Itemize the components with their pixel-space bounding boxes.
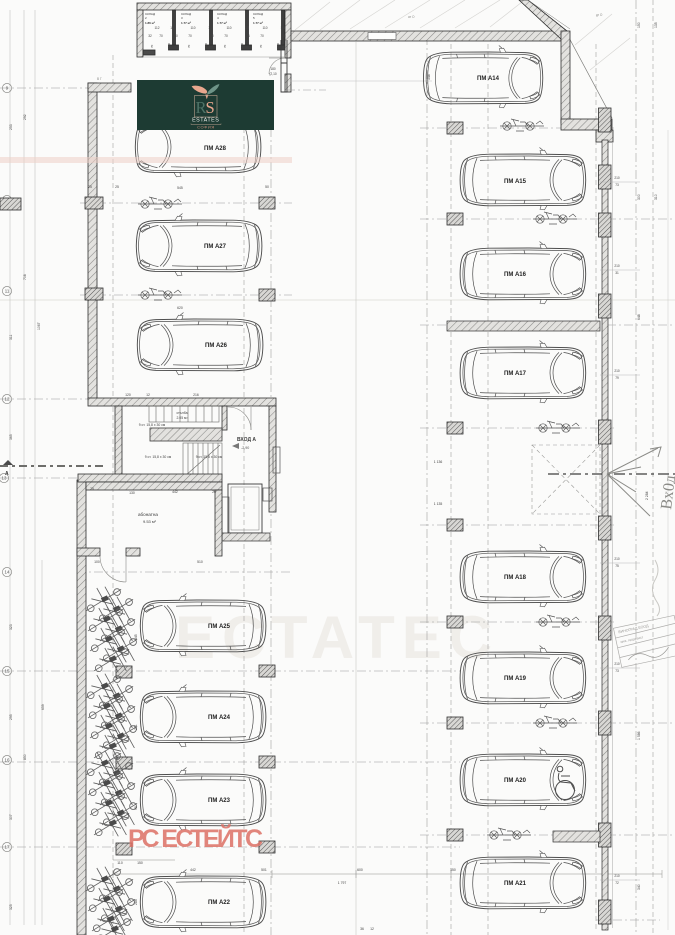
stair flight upper steps <box>149 406 219 422</box>
bottom dimension line 1797 <box>113 860 662 878</box>
svg-text:ПМ А17: ПМ А17 <box>504 371 527 377</box>
svg-text:271: 271 <box>134 724 138 730</box>
svg-text:S: S <box>206 98 215 117</box>
svg-text:36: 36 <box>246 34 250 38</box>
parking pilaster blocks right column <box>447 122 463 841</box>
right wall inner face line <box>612 142 614 928</box>
svg-text:73: 73 <box>615 183 619 187</box>
svg-text:300: 300 <box>637 194 641 200</box>
stair bottom wall <box>78 474 222 482</box>
svg-text:32: 32 <box>148 34 152 38</box>
logo bird right wing <box>207 84 219 94</box>
compartment front line <box>143 56 285 58</box>
svg-text:1 136: 1 136 <box>434 460 443 464</box>
svg-text:дг О: дг О <box>596 13 603 17</box>
svg-text:100: 100 <box>94 560 100 564</box>
car PM A23 <box>140 768 266 830</box>
small shaft box <box>263 488 272 501</box>
svg-text:26: 26 <box>212 490 216 494</box>
car PM A27 <box>136 214 262 276</box>
svg-text:850: 850 <box>23 754 27 760</box>
svg-text:12: 12 <box>146 393 150 397</box>
svg-text:545: 545 <box>177 186 183 190</box>
svg-text:150: 150 <box>637 22 641 28</box>
right wall pilaster blocks <box>599 108 612 924</box>
svg-text:70: 70 <box>259 44 263 48</box>
motorcycle top-right <box>500 119 544 131</box>
horizontal reference rows (left column) <box>0 88 460 847</box>
svg-text:В Г: В Г <box>97 77 102 81</box>
storage room labels <box>145 12 263 25</box>
svg-text:15: 15 <box>5 669 10 674</box>
svg-text:12: 12 <box>170 26 174 30</box>
storage right wall with door <box>285 10 291 58</box>
Vhod handwritten annotation <box>607 447 661 516</box>
diagonal wall top-right <box>519 0 567 39</box>
left wall pilaster 1 <box>85 197 103 209</box>
svg-text:25: 25 <box>115 185 119 189</box>
svg-text:442: 442 <box>172 490 178 494</box>
RS Estates logo plaque <box>137 80 274 130</box>
svg-text:110: 110 <box>190 26 195 30</box>
svg-text:150: 150 <box>450 868 456 872</box>
car PM A17 <box>460 341 586 403</box>
svg-text:30: 30 <box>210 34 214 38</box>
svg-text:180: 180 <box>270 67 276 71</box>
right outer wall <box>602 140 608 930</box>
svg-text:92: 92 <box>134 806 138 810</box>
window opening in bay wall <box>368 33 396 40</box>
motorcycle row A15/A16 <box>533 212 577 224</box>
pencil squiggle right <box>652 560 659 616</box>
svg-text:31: 31 <box>615 271 619 275</box>
svg-text:311: 311 <box>9 334 13 340</box>
car PM A16 <box>460 242 586 304</box>
svg-text:ПМ А16: ПМ А16 <box>504 272 527 278</box>
svg-text:210: 210 <box>614 874 620 878</box>
svg-text:510: 510 <box>197 560 203 564</box>
svg-text:ПМ А22: ПМ А22 <box>208 900 231 906</box>
storage block: top wall <box>137 3 291 92</box>
hatched divider strip right middle <box>447 321 600 331</box>
svg-text:12: 12 <box>5 397 10 402</box>
svg-text:9 ст. 15,8 х 30 см: 9 ст. 15,8 х 30 см <box>145 455 172 459</box>
scattered dimension numbers <box>88 185 456 931</box>
stair landing hatched band <box>150 428 222 441</box>
svg-text:120: 120 <box>125 393 131 397</box>
top-right bay wall horizontal <box>291 31 561 41</box>
bicycle rack group 2 <box>86 674 137 760</box>
svg-text:210: 210 <box>167 43 171 48</box>
car PM A19 <box>460 646 586 708</box>
elevator X-square (ramp zone) <box>532 445 600 514</box>
svg-text:ПМ А20: ПМ А20 <box>504 778 527 784</box>
car PM A14 <box>423 46 542 108</box>
motorcycle row X-square <box>536 421 580 433</box>
svg-text:1067: 1067 <box>37 322 41 330</box>
tiny survey marks <box>97 13 603 81</box>
grid bubbles with storey numbers <box>0 83 12 851</box>
logo bird left wing <box>192 86 208 94</box>
svg-text:1.77 м²: 1.77 м² <box>181 21 191 25</box>
svg-text:30: 30 <box>174 34 178 38</box>
rotated dims left margin <box>9 114 138 910</box>
svg-text:210: 210 <box>614 557 620 561</box>
svg-text:стълба: стълба <box>176 411 187 415</box>
stair core left wall <box>115 406 122 478</box>
svg-text:110: 110 <box>262 26 267 30</box>
svg-text:12: 12 <box>245 26 249 30</box>
svg-text:75: 75 <box>615 564 619 568</box>
dimension grid: far-left vertical dimension lines <box>10 10 42 925</box>
svg-text:ПМ А14: ПМ А14 <box>477 76 500 82</box>
svg-text:210: 210 <box>614 662 620 666</box>
stair flight lower steps <box>183 443 222 478</box>
svg-text:72: 72 <box>615 881 619 885</box>
svg-text:ПМ А28: ПМ А28 <box>204 146 227 152</box>
svg-text:13: 13 <box>2 476 7 481</box>
motorcycle left row 1 <box>138 197 182 209</box>
stair core top wall <box>88 398 276 406</box>
right side 210/73 dims <box>600 176 640 885</box>
svg-text:ПМ А25: ПМ А25 <box>208 624 231 630</box>
svg-text:659: 659 <box>41 704 45 710</box>
diagonal window line <box>567 34 612 118</box>
svg-text:70: 70 <box>223 44 227 48</box>
svg-text:1.77 м²: 1.77 м² <box>253 21 263 25</box>
car PM A21 <box>460 851 586 913</box>
motorcycle row A19/A20 <box>533 716 577 728</box>
svg-text:73: 73 <box>615 669 619 673</box>
svg-text:36: 36 <box>282 34 286 38</box>
svg-text:РС ЕСТЕЙТС: РС ЕСТЕЙТС <box>128 823 263 853</box>
svg-text:36: 36 <box>360 927 364 931</box>
svg-text:79: 79 <box>615 376 619 380</box>
svg-text:16: 16 <box>5 758 10 763</box>
rotated dims right margin <box>427 22 658 890</box>
logo bird tail <box>205 95 208 100</box>
svg-text:150: 150 <box>137 861 143 865</box>
surveyor stamp <box>613 615 675 667</box>
svg-text:310: 310 <box>654 194 658 200</box>
section line A-A left <box>0 460 105 466</box>
svg-text:СОФИЯ: СОФИЯ <box>197 125 215 130</box>
svg-text:70: 70 <box>150 44 154 48</box>
lift door panel <box>222 497 229 539</box>
logo RS square frame <box>195 96 218 118</box>
svg-text:-2,90: -2,90 <box>241 446 249 450</box>
motorcycle row A18/A19 <box>536 615 580 627</box>
svg-text:110: 110 <box>226 26 231 30</box>
svg-text:ПМ А23: ПМ А23 <box>208 798 231 804</box>
rotated partition dims <box>150 43 280 48</box>
svg-text:445: 445 <box>134 634 138 640</box>
svg-text:ПМ А18: ПМ А18 <box>504 575 527 581</box>
bicycle rack group 3 <box>86 751 137 837</box>
motorcycle left row 2 <box>138 288 182 300</box>
svg-text:112: 112 <box>154 26 159 30</box>
svg-text:442: 442 <box>190 868 196 872</box>
svg-text:ВХОД А: ВХОД А <box>237 437 256 443</box>
storage partition 1 <box>169 10 179 50</box>
svg-text:295: 295 <box>9 714 13 720</box>
svg-text:12: 12 <box>208 26 212 30</box>
left wall pilaster 2 <box>85 288 103 300</box>
car PM A26 <box>137 313 263 375</box>
svg-text:ат О: ат О <box>408 15 415 19</box>
svg-text:210: 210 <box>276 43 280 48</box>
svg-text:(2,10: (2,10 <box>269 72 276 76</box>
abonatna room top wall <box>86 482 222 490</box>
car PM A15 <box>460 148 586 210</box>
svg-text:12: 12 <box>370 927 374 931</box>
storage door swing arc <box>269 58 285 74</box>
car PM A28 <box>135 115 261 177</box>
svg-text:135: 135 <box>654 22 658 28</box>
svg-text:284: 284 <box>134 899 138 905</box>
stair mid wall <box>222 406 227 430</box>
svg-text:116: 116 <box>280 26 285 30</box>
motorcycle row A20/A21 <box>487 828 531 840</box>
storage partition 4 <box>278 10 288 50</box>
svg-text:14: 14 <box>5 570 10 575</box>
svg-text:70: 70 <box>188 34 192 38</box>
svg-text:2.05 м²: 2.05 м² <box>176 416 188 420</box>
car PM A24 <box>140 685 266 747</box>
svg-text:70: 70 <box>187 44 191 48</box>
section line A-A right (bold dashes) <box>548 473 675 475</box>
exterior roof hatch top-right <box>295 0 630 70</box>
svg-text:600: 600 <box>357 868 363 872</box>
svg-text:210: 210 <box>204 43 208 48</box>
svg-text:1 586: 1 586 <box>637 731 641 740</box>
svg-text:348: 348 <box>427 74 431 80</box>
svg-text:50: 50 <box>265 185 269 189</box>
bicycle rack group 4 <box>86 867 135 935</box>
storage left wall <box>137 10 143 57</box>
svg-text:1.77 м²: 1.77 м² <box>217 21 227 25</box>
svg-text:708: 708 <box>23 274 27 280</box>
svg-text:ПМ А26: ПМ А26 <box>205 343 228 349</box>
svg-text:9 ст. 15,8 х 30 см: 9 ст. 15,8 х 30 см <box>139 423 166 427</box>
svg-text:210: 210 <box>240 43 244 48</box>
radiator niche <box>273 447 280 473</box>
parking pilaster blocks left column <box>116 197 275 855</box>
svg-text:ESTATES: ESTATES <box>192 118 219 124</box>
svg-text:11: 11 <box>5 289 10 294</box>
far-left wall stub <box>0 198 21 210</box>
svg-text:1.86 м²: 1.86 м² <box>145 21 155 25</box>
storage partition 3 <box>242 10 252 50</box>
svg-text:1 797: 1 797 <box>338 881 347 885</box>
svg-text:абонатна: абонатна <box>138 512 158 517</box>
entrance door swing <box>228 407 251 430</box>
svg-text:307: 307 <box>9 814 13 820</box>
abonatna bottom wall <box>77 548 100 556</box>
svg-text:210: 210 <box>614 264 620 268</box>
left outer wall upper <box>88 83 97 399</box>
svg-text:325: 325 <box>9 904 13 910</box>
svg-text:2 284: 2 284 <box>645 491 649 500</box>
svg-text:ПМ А21: ПМ А21 <box>504 881 527 887</box>
svg-text:ПМ А15: ПМ А15 <box>504 179 527 185</box>
abonatna right wall <box>215 490 222 556</box>
storage right wall step <box>281 40 287 92</box>
driveway edge line <box>287 80 432 82</box>
bicycle rack group 1 <box>86 587 137 673</box>
wall below lift <box>222 533 270 541</box>
car PM A20 <box>460 748 586 810</box>
svg-text:70: 70 <box>260 34 264 38</box>
svg-text:70: 70 <box>159 34 163 38</box>
storage dimension numbers <box>148 26 286 76</box>
stair core right wall <box>269 406 276 512</box>
svg-text:110: 110 <box>117 861 123 865</box>
svg-text:1 135: 1 135 <box>434 502 443 506</box>
svg-text:25: 25 <box>90 487 94 491</box>
car PM A18 <box>460 545 586 607</box>
svg-text:130: 130 <box>129 491 135 495</box>
svg-text:501: 501 <box>261 868 267 872</box>
lift shaft <box>228 484 262 533</box>
bay bottom wall <box>561 119 612 130</box>
svg-text:ЕСТАТЕС: ЕСТАТЕС <box>175 604 499 671</box>
svg-text:ПМ А24: ПМ А24 <box>208 715 231 721</box>
svg-text:648: 648 <box>637 314 641 320</box>
svg-text:9 ст. 15,8 х 30 см: 9 ст. 15,8 х 30 см <box>196 455 223 459</box>
svg-text:210: 210 <box>614 369 620 373</box>
svg-text:365: 365 <box>9 434 13 440</box>
logo underline bracket <box>191 124 221 125</box>
svg-text:9.53 м²: 9.53 м² <box>143 519 157 524</box>
svg-text:292: 292 <box>23 114 27 120</box>
hatched divider strip bottom right <box>553 831 600 842</box>
svg-text:340: 340 <box>637 884 641 890</box>
storage partition 2 <box>206 10 216 50</box>
svg-text:253: 253 <box>9 124 13 130</box>
svg-text:ПМ А19: ПМ А19 <box>504 676 527 682</box>
svg-text:216: 216 <box>193 393 199 397</box>
svg-text:323: 323 <box>9 624 13 630</box>
svg-text:210: 210 <box>614 176 620 180</box>
svg-text:25: 25 <box>88 185 92 189</box>
horizontal reference rows (right column) <box>420 128 675 920</box>
svg-text:620: 620 <box>177 306 183 310</box>
bay right vertical wall <box>561 31 570 123</box>
wheelchair symbol on A20 <box>556 766 576 799</box>
left outer wall lower <box>77 480 86 935</box>
car PM A25 <box>140 594 266 656</box>
svg-text:ПМ А27: ПМ А27 <box>204 244 227 250</box>
watermark pink smudge band <box>0 157 292 163</box>
svg-text:70: 70 <box>224 34 228 38</box>
car PM A22 <box>140 870 266 932</box>
svg-text:17: 17 <box>5 845 10 850</box>
abonatna door swing <box>100 556 126 582</box>
